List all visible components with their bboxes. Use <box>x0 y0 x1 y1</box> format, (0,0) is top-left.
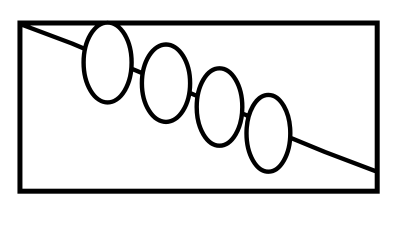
loop 1 <box>84 23 132 103</box>
wire (diagonal line from top-left corner to right border) <box>20 24 375 171</box>
loop 4 <box>247 95 291 172</box>
enclosure rectangle <box>20 23 377 191</box>
loop 2 <box>142 44 190 121</box>
loop 3 <box>197 68 243 145</box>
